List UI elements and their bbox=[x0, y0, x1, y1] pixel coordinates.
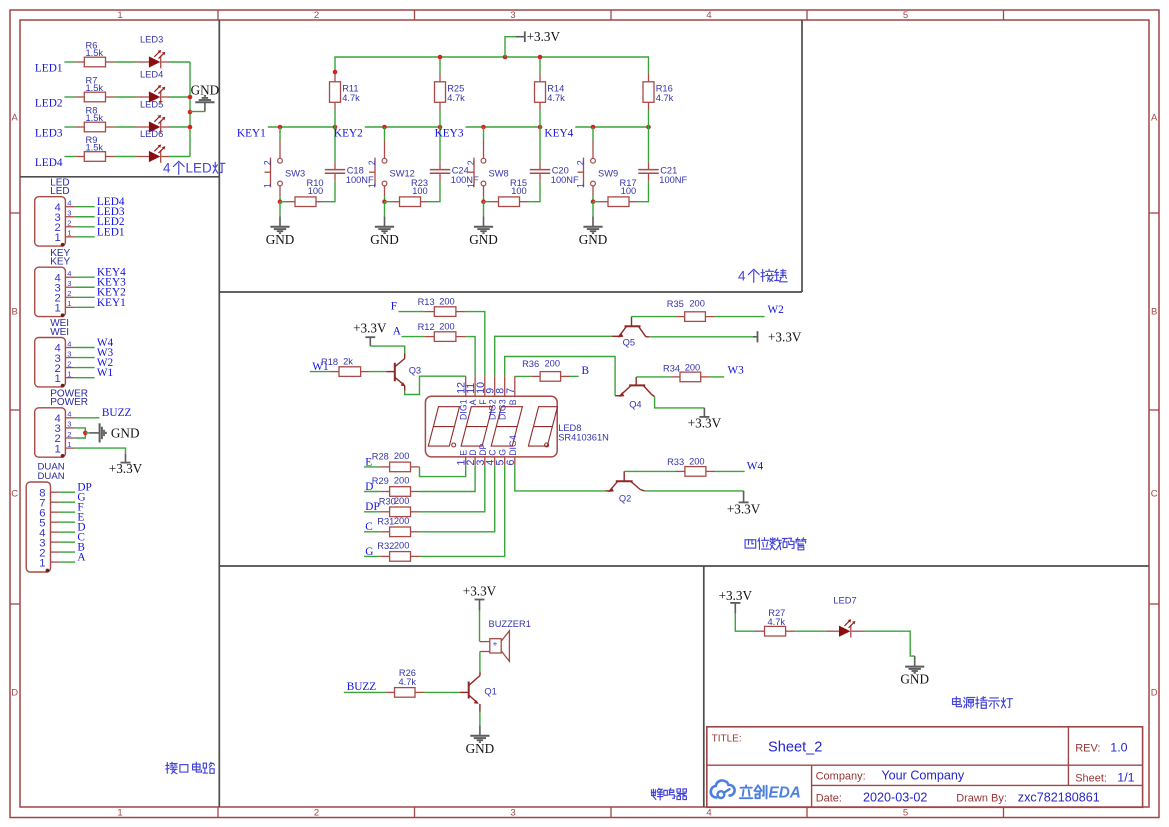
wire bbox=[324, 181, 335, 202]
svg-text:Q5: Q5 bbox=[623, 338, 635, 348]
svg-text:R35: R35 bbox=[667, 299, 684, 309]
resistor R26 4.7k bbox=[386, 691, 395, 693]
wire bbox=[364, 491, 380, 493]
svg-text:W4: W4 bbox=[747, 460, 764, 472]
svg-text:REV:: REV: bbox=[1075, 742, 1100, 754]
wire R28 to pin1 bbox=[420, 465, 466, 477]
wire pin2 to gnd node bbox=[75, 433, 86, 438]
svg-text:4.7k: 4.7k bbox=[342, 93, 360, 103]
wire key row bbox=[466, 126, 542, 128]
wire to pin11 bbox=[466, 337, 475, 377]
svg-text:R28: R28 bbox=[372, 452, 389, 462]
wire bbox=[344, 691, 386, 693]
wire pin3 to gnd node bbox=[75, 428, 86, 433]
svg-text:100: 100 bbox=[621, 186, 637, 196]
svg-text:4.7k: 4.7k bbox=[656, 93, 674, 103]
wire key row bbox=[575, 126, 649, 128]
svg-text:F: F bbox=[478, 399, 488, 405]
svg-text:KEY1: KEY1 bbox=[237, 128, 266, 140]
resistor R18 2k bbox=[330, 371, 339, 373]
svg-text:KEY: KEY bbox=[50, 257, 70, 268]
wire bbox=[279, 196, 281, 202]
svg-text:3: 3 bbox=[510, 808, 515, 819]
wire bbox=[115, 156, 135, 158]
svg-text:2: 2 bbox=[367, 160, 377, 165]
svg-text:POWER: POWER bbox=[50, 397, 88, 408]
svg-text:200: 200 bbox=[394, 476, 410, 486]
svg-text:4: 4 bbox=[67, 199, 71, 208]
junction dots bbox=[382, 125, 387, 130]
svg-text:2k: 2k bbox=[343, 356, 353, 366]
resistor R6 1.5k bbox=[75, 61, 84, 63]
svg-text:BUZZ: BUZZ bbox=[102, 407, 132, 419]
svg-text:1.5k: 1.5k bbox=[86, 83, 104, 93]
svg-text:1: 1 bbox=[117, 10, 122, 21]
svg-text:D: D bbox=[1151, 688, 1158, 699]
svg-text:TITLE:: TITLE: bbox=[712, 733, 742, 744]
resistor R33 200 bbox=[676, 470, 685, 472]
pin 3 (DP) bbox=[484, 457, 486, 465]
svg-text:1: 1 bbox=[263, 183, 273, 188]
svg-text:Q4: Q4 bbox=[629, 400, 641, 410]
ground GND bbox=[384, 216, 386, 227]
resistor R16 4.7k bbox=[648, 74, 650, 82]
connector DUAN bbox=[26, 462, 92, 573]
svg-text:zxc782180861: zxc782180861 bbox=[1018, 791, 1100, 805]
svg-text:4: 4 bbox=[706, 10, 711, 21]
svg-text:1: 1 bbox=[576, 183, 586, 188]
resistor R12 200 bbox=[424, 336, 434, 338]
transistor Q4 bbox=[615, 377, 655, 410]
svg-text:LED: LED bbox=[50, 186, 69, 197]
junction dots bbox=[481, 125, 486, 130]
wire bbox=[648, 110, 650, 127]
ground GND (rotated right) bbox=[90, 423, 140, 442]
power +3.3V bbox=[463, 583, 497, 610]
svg-text:1: 1 bbox=[55, 443, 61, 455]
wire bbox=[384, 196, 386, 202]
title block bbox=[707, 727, 1143, 808]
svg-text:R12: R12 bbox=[418, 322, 435, 332]
svg-text:1.5k: 1.5k bbox=[86, 113, 104, 123]
svg-text:DP: DP bbox=[478, 443, 488, 455]
wire bbox=[399, 311, 425, 313]
svg-text:W1: W1 bbox=[97, 367, 113, 379]
svg-text:2: 2 bbox=[314, 10, 319, 21]
wire bbox=[64, 126, 75, 128]
svg-text:1/1: 1/1 bbox=[1117, 770, 1134, 784]
svg-text:SR410361N: SR410361N bbox=[558, 433, 609, 443]
section divider vertical line x=219 bbox=[218, 20, 220, 807]
svg-text:R34: R34 bbox=[663, 363, 680, 373]
svg-text:G: G bbox=[498, 449, 508, 456]
wire bbox=[64, 96, 75, 98]
wire +3.3V bus bbox=[335, 57, 649, 74]
svg-text:200: 200 bbox=[394, 516, 410, 526]
svg-text:Drawn By:: Drawn By: bbox=[956, 792, 1007, 804]
wire R31 to pin4 bbox=[420, 465, 495, 532]
resistor R7 1.5k bbox=[75, 96, 84, 98]
svg-text:LED: LED bbox=[186, 161, 213, 176]
wire cathode bus vertical bbox=[189, 62, 191, 157]
section divider below display block bbox=[219, 565, 1149, 567]
power +3.3V bbox=[719, 588, 753, 614]
svg-text:5: 5 bbox=[903, 808, 908, 819]
wire bbox=[115, 126, 135, 128]
svg-text:3: 3 bbox=[67, 279, 71, 288]
svg-text:100: 100 bbox=[308, 186, 324, 196]
svg-text:+3.3V: +3.3V bbox=[727, 502, 761, 517]
svg-text:B: B bbox=[508, 399, 518, 405]
svg-text:1.5k: 1.5k bbox=[86, 143, 104, 153]
resistor R36 200 bbox=[531, 375, 540, 377]
svg-text:D: D bbox=[11, 688, 18, 699]
ground GND bbox=[479, 725, 481, 736]
svg-text:C: C bbox=[11, 488, 18, 499]
svg-text:200: 200 bbox=[394, 451, 410, 461]
ground GND bbox=[914, 656, 916, 667]
svg-text:C: C bbox=[1151, 488, 1158, 499]
svg-text:LED2: LED2 bbox=[35, 98, 63, 110]
svg-text:2: 2 bbox=[67, 219, 71, 228]
junction dot bbox=[83, 431, 88, 436]
svg-text:4: 4 bbox=[738, 269, 746, 284]
svg-text:+: + bbox=[493, 639, 498, 649]
wire to gnd bbox=[279, 202, 281, 217]
wire bbox=[364, 555, 380, 557]
connector POWER bbox=[35, 388, 143, 476]
svg-text:LED3: LED3 bbox=[35, 128, 63, 140]
wire bbox=[115, 61, 135, 63]
pin 4 (C) bbox=[494, 457, 496, 465]
capacitor C21 100NF bbox=[638, 127, 687, 185]
wire bbox=[479, 652, 481, 673]
svg-text:GND: GND bbox=[111, 425, 140, 440]
wire bbox=[370, 371, 386, 373]
svg-text:KEY4: KEY4 bbox=[544, 128, 573, 140]
svg-text:4.7k: 4.7k bbox=[768, 617, 786, 627]
svg-text:B: B bbox=[1151, 306, 1157, 317]
section label buzzer bbox=[651, 788, 663, 800]
ground GND bbox=[483, 216, 485, 227]
wire Q2 collector to +3.3V bbox=[645, 490, 744, 492]
wire gnd stub bbox=[190, 111, 205, 113]
resistor R32 200 bbox=[380, 555, 389, 557]
resistor R14 4.7k bbox=[539, 74, 541, 82]
LED LED4 bbox=[135, 96, 149, 98]
svg-text:+3.3V: +3.3V bbox=[109, 461, 143, 476]
svg-text:3: 3 bbox=[510, 10, 515, 21]
svg-text:SW8: SW8 bbox=[489, 169, 509, 179]
buzzer BUZZER1 bbox=[480, 619, 531, 661]
svg-text:200: 200 bbox=[545, 358, 561, 368]
svg-text:4: 4 bbox=[67, 410, 71, 419]
svg-text:200: 200 bbox=[689, 299, 705, 309]
svg-text:A: A bbox=[77, 551, 86, 563]
svg-text:1: 1 bbox=[466, 183, 476, 188]
wire bbox=[64, 61, 75, 63]
svg-text:1: 1 bbox=[67, 299, 71, 308]
svg-text:6: 6 bbox=[505, 460, 517, 466]
resistor R27 4.7k bbox=[755, 630, 765, 632]
junction dots bbox=[591, 125, 596, 130]
wire bbox=[528, 181, 541, 202]
power +3.3V above Q3 bbox=[353, 321, 387, 347]
wire Q4 base to R34 bbox=[636, 376, 670, 378]
wire bbox=[169, 61, 190, 63]
svg-text:4: 4 bbox=[706, 808, 711, 819]
svg-text:1.0: 1.0 bbox=[1110, 740, 1127, 754]
power +3.3V bbox=[753, 330, 802, 345]
pin 9 (DIG2) bbox=[494, 376, 496, 396]
pin 11 (A) bbox=[474, 376, 476, 396]
wire pin9 to Q5 emitter bbox=[495, 336, 612, 376]
switch SW9 bbox=[576, 127, 618, 196]
svg-text:4.7k: 4.7k bbox=[447, 93, 465, 103]
buzzer block bbox=[344, 583, 687, 800]
resistor R28 200 bbox=[380, 466, 389, 468]
svg-text:GND: GND bbox=[579, 232, 608, 247]
resistor R29 200 bbox=[380, 491, 389, 493]
svg-text:Your Company: Your Company bbox=[881, 769, 965, 783]
svg-text:+3.3V: +3.3V bbox=[353, 321, 387, 336]
svg-text:3: 3 bbox=[67, 420, 71, 429]
svg-text:GND: GND bbox=[370, 232, 399, 247]
connector KEY bbox=[35, 248, 126, 317]
svg-text:R29: R29 bbox=[372, 476, 389, 486]
svg-text:+3.3V: +3.3V bbox=[688, 415, 722, 430]
svg-text:W3: W3 bbox=[728, 364, 745, 376]
svg-text:+3.3V: +3.3V bbox=[768, 330, 802, 345]
svg-text:5: 5 bbox=[903, 10, 908, 21]
svg-text:1.5k: 1.5k bbox=[86, 48, 104, 58]
section label 4-digit display bbox=[745, 540, 756, 548]
svg-text:W2: W2 bbox=[768, 304, 785, 316]
svg-text:R13: R13 bbox=[418, 297, 435, 307]
capacitor C18 100NF bbox=[325, 127, 374, 185]
svg-text:D: D bbox=[468, 449, 478, 455]
power +3.3V bbox=[703, 408, 705, 417]
svg-text:LED4: LED4 bbox=[140, 70, 163, 80]
svg-text:1: 1 bbox=[67, 440, 71, 449]
svg-text:KEY2: KEY2 bbox=[334, 128, 363, 140]
resistor R34 200 bbox=[671, 376, 680, 378]
svg-text:A: A bbox=[12, 112, 19, 123]
wire bbox=[570, 375, 579, 377]
svg-text:+3.3V: +3.3V bbox=[527, 29, 561, 44]
wire +3.3V to Q3 collector bbox=[370, 346, 404, 353]
svg-text:BUZZ: BUZZ bbox=[347, 681, 377, 693]
wire key row bbox=[268, 126, 336, 128]
wire BUZZ bbox=[75, 417, 100, 419]
svg-text:C: C bbox=[488, 449, 498, 456]
wire bbox=[402, 336, 425, 338]
svg-text:GND: GND bbox=[191, 83, 220, 98]
svg-text:2: 2 bbox=[67, 289, 71, 298]
wire gnd stub bbox=[85, 432, 89, 434]
svg-text:2020-03-02: 2020-03-02 bbox=[863, 791, 927, 805]
svg-text:2: 2 bbox=[67, 430, 71, 439]
svg-text:1: 1 bbox=[55, 232, 61, 244]
svg-text:SW9: SW9 bbox=[598, 169, 618, 179]
ground GND bbox=[592, 216, 594, 227]
wire Q5 collector to +3.3V bbox=[649, 336, 753, 338]
section divider below keys block bbox=[219, 291, 802, 293]
svg-text:2: 2 bbox=[314, 808, 319, 819]
transistor Q3 bbox=[386, 353, 421, 390]
svg-text:200: 200 bbox=[439, 321, 455, 331]
svg-text:1: 1 bbox=[117, 808, 122, 819]
svg-text:GND: GND bbox=[266, 232, 295, 247]
svg-text:DIG2: DIG2 bbox=[488, 399, 498, 420]
7-seg display LED8 SR410361N bbox=[425, 376, 608, 465]
pin 6 (DIG4) bbox=[514, 457, 516, 465]
switch SW8 bbox=[466, 127, 508, 196]
svg-text:LED1: LED1 bbox=[35, 63, 63, 75]
wire Q4 collector to +3.3V bbox=[655, 397, 705, 408]
svg-text:100: 100 bbox=[412, 186, 428, 196]
svg-text:100: 100 bbox=[511, 186, 527, 196]
wire to gnd bbox=[483, 202, 485, 217]
wire to gnd bbox=[592, 202, 594, 217]
svg-text:LED1: LED1 bbox=[97, 226, 125, 238]
svg-text:Q2: Q2 bbox=[619, 494, 631, 504]
svg-text:3: 3 bbox=[67, 209, 71, 218]
svg-text:R36: R36 bbox=[522, 359, 539, 369]
switch SW12 bbox=[367, 127, 415, 196]
wire bbox=[483, 196, 485, 202]
junction dots on bus bbox=[438, 55, 443, 60]
svg-text:200: 200 bbox=[439, 296, 455, 306]
wire bbox=[637, 181, 649, 202]
wire bbox=[115, 96, 135, 98]
pin 5 (G) bbox=[504, 457, 506, 465]
svg-text:KEY3: KEY3 bbox=[435, 128, 464, 140]
wire bbox=[364, 511, 380, 513]
power indicator block bbox=[719, 588, 1013, 709]
svg-text:2: 2 bbox=[466, 160, 476, 165]
power +3.3V bbox=[125, 454, 127, 463]
svg-text:Date:: Date: bbox=[816, 792, 842, 804]
svg-text:DIG3: DIG3 bbox=[498, 399, 508, 420]
LED LED3 bbox=[135, 61, 149, 63]
wire bbox=[424, 691, 460, 693]
transistor Q5 bbox=[612, 317, 649, 348]
section divider right of keys block bbox=[801, 20, 803, 292]
svg-text:B: B bbox=[582, 365, 590, 377]
svg-text:B: B bbox=[12, 306, 18, 317]
transistor Q1 bbox=[460, 672, 497, 711]
svg-text:200: 200 bbox=[394, 541, 410, 551]
svg-text:1: 1 bbox=[55, 303, 61, 315]
ground GND bbox=[279, 216, 281, 227]
wire bbox=[364, 531, 380, 533]
wire bbox=[439, 110, 441, 127]
wire bbox=[169, 126, 190, 128]
wire bbox=[709, 376, 724, 378]
4 LED block bbox=[35, 35, 225, 176]
pin 1 (E) bbox=[465, 457, 467, 465]
ground GND (flipped up) bbox=[191, 83, 220, 112]
capacitor C24 100NF bbox=[430, 127, 479, 185]
wire bbox=[715, 316, 765, 318]
wire R30 to pin3 bbox=[420, 465, 485, 512]
svg-text:100NF: 100NF bbox=[659, 175, 687, 185]
svg-text:Sheet_2: Sheet_2 bbox=[768, 740, 822, 756]
LED LED6 bbox=[135, 156, 149, 158]
pin 2 (D) bbox=[474, 457, 476, 465]
svg-text:Sheet:: Sheet: bbox=[1075, 772, 1107, 784]
resistor R31 200 bbox=[380, 531, 389, 533]
svg-text:R33: R33 bbox=[667, 457, 684, 467]
wire bbox=[64, 156, 75, 158]
pin 7 (B) bbox=[514, 376, 516, 396]
svg-text:A: A bbox=[1151, 112, 1158, 123]
svg-text:SW3: SW3 bbox=[285, 169, 305, 179]
section divider between buzzer and power-led blocks bbox=[703, 566, 705, 807]
resistor R25 4.7k bbox=[439, 74, 441, 82]
svg-text:LED4: LED4 bbox=[35, 157, 63, 169]
EasyEDA logo bbox=[711, 780, 801, 801]
svg-text:4: 4 bbox=[67, 269, 71, 278]
wire Q5 base to R35 bbox=[632, 316, 676, 318]
svg-text:R18: R18 bbox=[321, 357, 338, 367]
wire pin7 to R36 bbox=[515, 375, 531, 377]
svg-text:LED5: LED5 bbox=[140, 100, 163, 110]
wire bbox=[429, 181, 441, 202]
svg-text:Q1: Q1 bbox=[484, 687, 496, 697]
svg-text:7: 7 bbox=[505, 388, 517, 394]
pin 12 (DIG1) bbox=[465, 376, 467, 396]
wire bbox=[795, 630, 826, 632]
wire bbox=[735, 613, 754, 631]
svg-text:LED7: LED7 bbox=[833, 595, 856, 605]
connector WEI bbox=[35, 318, 114, 387]
svg-text:LED3: LED3 bbox=[140, 35, 163, 45]
resistor R9 1.5k bbox=[75, 156, 84, 158]
resistor R8 1.5k bbox=[75, 126, 84, 128]
capacitor C20 100NF bbox=[530, 127, 579, 185]
svg-text:F: F bbox=[391, 300, 397, 312]
svg-text:DUAN: DUAN bbox=[38, 471, 65, 482]
svg-text:1: 1 bbox=[67, 229, 71, 238]
svg-text:GND: GND bbox=[900, 672, 929, 687]
wire bbox=[169, 96, 190, 98]
pin 10 (F) bbox=[484, 376, 486, 396]
svg-text:2: 2 bbox=[576, 160, 586, 165]
svg-text:200: 200 bbox=[394, 496, 410, 506]
svg-text:BUZZER1: BUZZER1 bbox=[489, 619, 531, 629]
svg-text:+3.3V: +3.3V bbox=[719, 588, 753, 603]
wire bbox=[715, 470, 744, 472]
svg-text:200: 200 bbox=[685, 363, 701, 373]
wire key row bbox=[365, 126, 441, 128]
wire pin8 to Q4 emitter bbox=[505, 357, 615, 393]
connector LED bbox=[35, 177, 125, 246]
svg-text:3: 3 bbox=[67, 349, 71, 358]
wire bbox=[334, 110, 336, 127]
svg-text:2: 2 bbox=[67, 359, 71, 368]
wire bbox=[310, 371, 330, 373]
svg-text:LED6: LED6 bbox=[140, 129, 163, 139]
resistor R11 4.7k bbox=[334, 74, 336, 82]
wire bbox=[169, 156, 190, 158]
wire pin1 to +3.3V bbox=[75, 448, 126, 454]
switch SW3 bbox=[263, 127, 305, 196]
svg-text:EDA: EDA bbox=[769, 784, 801, 801]
resistor R35 200 bbox=[675, 316, 684, 318]
section label power indicator bbox=[953, 697, 962, 707]
